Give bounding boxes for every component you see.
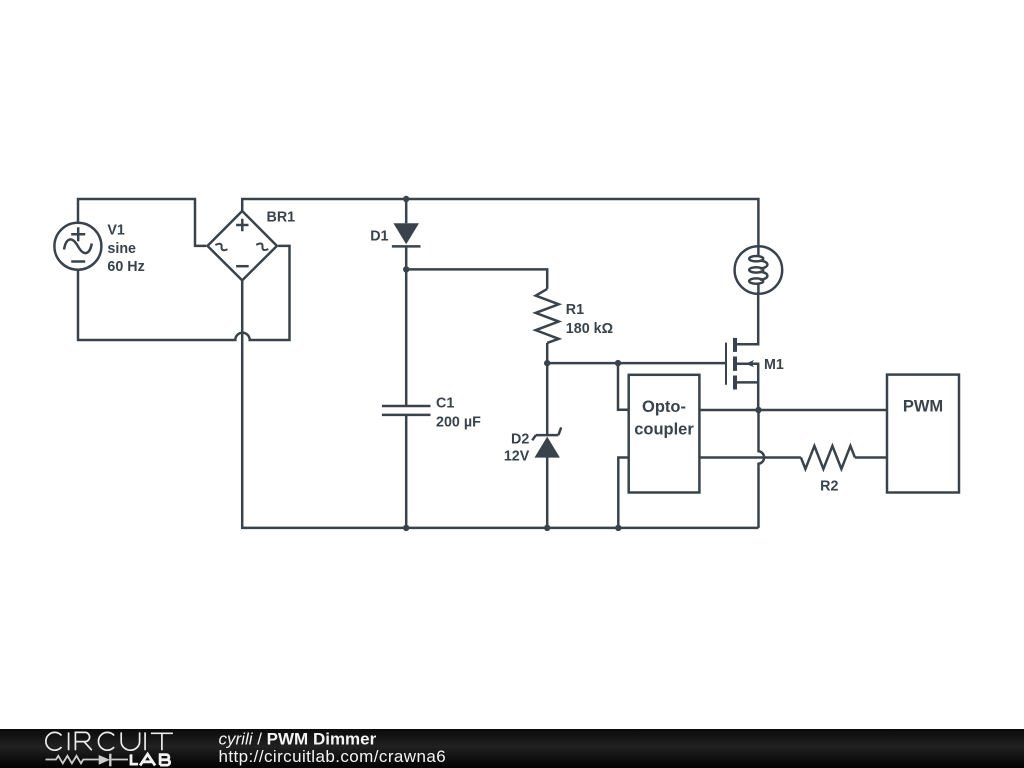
svg-text:200 µF: 200 µF: [436, 415, 481, 431]
svg-text:60 Hz: 60 Hz: [107, 259, 144, 275]
svg-text:R1: R1: [566, 302, 584, 318]
svg-text:Opto-: Opto-: [642, 398, 686, 416]
svg-text:sine: sine: [107, 241, 136, 257]
svg-text:M1: M1: [764, 357, 784, 373]
svg-text:coupler: coupler: [634, 421, 694, 439]
svg-text:R2: R2: [820, 478, 838, 494]
svg-text:12V: 12V: [504, 449, 530, 465]
svg-text:V1: V1: [107, 223, 125, 239]
svg-text:180 kΩ: 180 kΩ: [566, 321, 613, 337]
svg-text:BR1: BR1: [267, 209, 296, 225]
svg-text:D1: D1: [370, 229, 388, 245]
svg-text:D2: D2: [511, 431, 529, 447]
svg-text:C1: C1: [436, 395, 454, 411]
svg-text:PWM: PWM: [903, 398, 943, 416]
